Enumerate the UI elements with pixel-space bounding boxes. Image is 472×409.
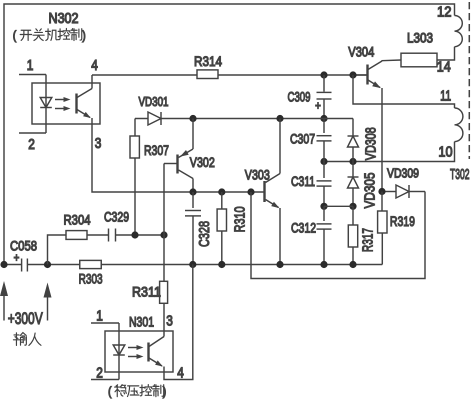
svg-text:(: ( [13,30,17,43]
svg-text:R319: R319 [390,213,415,229]
svg-text:(: ( [108,386,112,399]
svg-text:+: + [315,100,321,113]
svg-text:1: 1 [96,307,103,323]
svg-text:11: 11 [440,87,451,103]
svg-text:1: 1 [27,57,34,73]
svg-text:C312: C312 [291,219,316,235]
svg-text:R304: R304 [64,211,91,227]
svg-text:VD305: VD305 [361,172,377,208]
svg-text:C309: C309 [288,88,311,104]
svg-text:R314: R314 [194,53,222,69]
svg-text:VD309: VD309 [387,165,419,180]
svg-text:): ) [82,30,85,43]
svg-text:N302: N302 [49,10,79,26]
svg-text:2: 2 [96,364,103,380]
svg-text:C329: C329 [104,208,129,224]
svg-text:R317: R317 [360,228,376,252]
svg-text:R310: R310 [231,206,247,232]
svg-text:VD301: VD301 [139,94,169,109]
svg-text:C311: C311 [291,173,315,189]
svg-text:+: + [14,252,20,265]
svg-text:N301: N301 [129,313,154,329]
svg-text:R307: R307 [144,142,169,158]
svg-text:R311: R311 [132,283,161,299]
svg-text:): ) [163,386,166,399]
svg-text:C328: C328 [196,221,212,247]
svg-text:2: 2 [28,136,35,152]
svg-text:+300V: +300V [8,310,44,329]
svg-text:3: 3 [166,312,173,328]
svg-text:10: 10 [438,143,453,159]
svg-text:C307: C307 [290,130,315,146]
svg-text:VD308: VD308 [362,127,378,160]
svg-text:12: 12 [437,3,452,19]
svg-text:V302: V302 [190,154,215,170]
svg-text:R303: R303 [79,270,103,286]
svg-text:L303: L303 [407,29,433,45]
svg-text:T302: T302 [450,166,470,182]
svg-text:14: 14 [437,58,451,74]
svg-text:4: 4 [91,57,98,73]
svg-text:V303: V303 [245,166,270,182]
svg-text:3: 3 [95,135,102,151]
svg-text:4: 4 [177,364,184,380]
svg-text:V304: V304 [348,43,374,59]
